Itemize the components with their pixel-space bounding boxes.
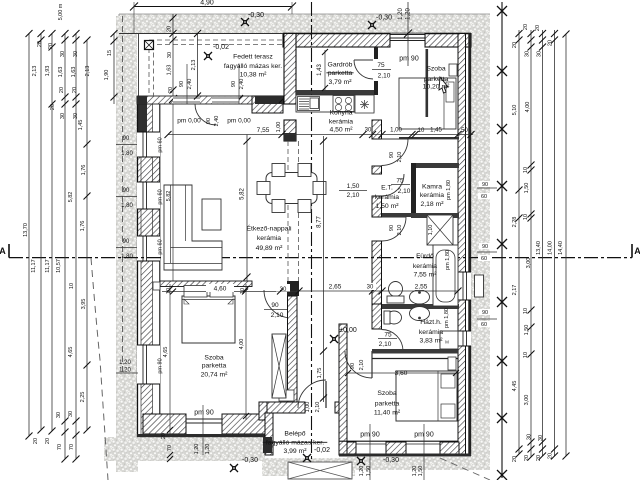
window furdo east [458,272,471,300]
level -0,30 top-right [368,15,392,30]
svg-text:Étkező-nappali: Étkező-nappali [247,224,292,233]
svg-text:1,20: 1,20 [205,444,211,455]
svg-text:10,38 m²: 10,38 m² [240,72,268,79]
svg-text:3,00: 3,00 [524,395,530,406]
svg-text:2,40: 2,40 [187,79,193,90]
svg-text:30: 30 [527,434,533,440]
svg-text:60: 60 [481,256,487,262]
svg-text:10: 10 [418,128,425,134]
level -0,30 top-left [241,12,264,26]
dim chain y134.5 (7,55 / 30 / 1,00 / 10 / 1,45 / 50) [165,122,475,138]
svg-text:kerámia: kerámia [329,119,353,126]
svg-text:90: 90 [271,302,279,309]
svg-text:90: 90 [179,81,185,87]
svg-text:pm 1,80: pm 1,80 [446,180,452,200]
svg-text:49,89 m²: 49,89 m² [256,245,284,252]
corridor door arc [382,139,409,166]
label konyha [329,110,353,134]
svg-text:1,93: 1,93 [45,66,51,77]
terrace column [145,41,154,50]
wall terrace-kitchen x284 [284,34,296,142]
pm 90 bottom labels [194,405,434,480]
svg-text:11,17: 11,17 [31,259,37,272]
svg-text:90: 90 [389,152,395,158]
level -0,30 bottom-right [357,457,399,465]
svg-text:1,50: 1,50 [524,325,530,336]
svg-text:kerámia: kerámia [413,263,437,270]
svg-text:A: A [634,246,640,256]
svg-text:1,00: 1,00 [305,402,311,413]
gardrob dims 1,43 / 75 / 2,10 [317,49,391,91]
svg-text:90: 90 [123,188,130,194]
bathtub [433,245,458,306]
south wall bedroom2 [339,441,471,456]
east window dims 90/60 [477,181,497,328]
vertical axis dash-dot line x311.5 [311,2,313,473]
svg-text:Gardrób: Gardrób [328,62,353,69]
label fedett terasz [224,54,282,79]
svg-text:1,50: 1,50 [347,183,360,190]
washbasin furdo [410,290,430,304]
east exterior wall [458,34,471,457]
north exterior wall [283,34,471,48]
svg-text:3,79 m²: 3,79 m² [328,79,352,86]
svg-text:pm 1,80: pm 1,80 [444,308,450,328]
svg-text:Szoba: Szoba [377,390,396,397]
svg-text:20: 20 [45,438,51,444]
svg-text:8,77: 8,77 [317,216,323,228]
svg-text:90: 90 [389,225,395,231]
svg-text:60: 60 [481,322,487,328]
svg-text:20: 20 [59,87,65,93]
level -0,02 belepo [303,447,330,462]
window west 3 [137,236,160,261]
svg-text:14,40: 14,40 [558,241,564,255]
svg-text:1,63: 1,63 [167,65,173,76]
hazth south wall y346 [372,349,458,359]
property dashed line bottom-left [91,258,108,480]
svg-text:2,40: 2,40 [239,79,245,90]
dim line x197.5 (2,13) [191,30,201,100]
svg-text:4,65: 4,65 [163,347,169,358]
svg-text:1,20: 1,20 [406,8,412,20]
svg-text:70: 70 [57,444,63,450]
svg-text:parketta: parketta [328,70,353,77]
left dimension lines cluster [26,30,91,463]
svg-text:2,65: 2,65 [329,284,342,291]
szoba2 bed outline [399,78,456,129]
fence line with X marks [497,2,507,480]
chair 4 [313,182,326,195]
bedroom1 wall chain 10/4,60/10/30 [162,284,297,295]
svg-text:4,45: 4,45 [512,381,518,392]
svg-text:-0,30: -0,30 [376,15,392,22]
svg-text:Fedett terasz: Fedett terasz [233,54,273,61]
entrance north wall (belepo) [259,402,347,420]
svg-text:parketta: parketta [202,363,227,370]
right dim ticks [516,30,570,461]
west window dims 90/1,80 [116,136,137,260]
svg-text:1,20: 1,20 [119,360,131,366]
svg-text:90: 90 [123,136,130,142]
dim 15/1,90 line [104,30,118,104]
bed1 bedroom1 [182,286,235,344]
svg-text:pm 90: pm 90 [194,410,214,417]
svg-text:4,60: 4,60 [214,286,227,293]
svg-text:kerámia: kerámia [257,235,281,242]
beam dashed lines dining [288,141,299,281]
svg-text:2,10: 2,10 [347,192,360,199]
paving speckle band around building [104,14,490,476]
window south bedroom1 [186,419,222,423]
svg-text:10: 10 [523,167,529,173]
living/bedroom1 partition y281 [160,281,299,296]
svg-text:4,00: 4,00 [525,102,531,113]
ticks on terrace wall band [169,95,287,103]
window west 1 [137,132,160,157]
svg-text:7,55 m²: 7,55 m² [413,272,437,279]
svg-text:11,40 m²: 11,40 m² [374,410,401,417]
dim line x173b 5,82 [166,104,173,281]
south wall bedroom1 [137,414,267,437]
svg-text:1,00: 1,00 [276,122,282,133]
window west 2 [137,182,160,209]
hall cabinet [279,390,294,401]
mouse cursor [439,77,448,93]
svg-text:30: 30 [525,51,531,57]
svg-text:2,10: 2,10 [378,73,391,80]
chair 3 [257,182,270,195]
svg-text:90: 90 [482,310,488,316]
label hazth [419,319,443,345]
toilet hazth [384,311,402,324]
svg-text:Fürdő: Fürdő [416,253,434,260]
svg-text:20: 20 [167,26,173,32]
svg-text:3,83 m²: 3,83 m² [419,338,443,345]
svg-text:1,20: 1,20 [359,466,365,477]
ET door dims 90/2,10 + 1,50/2,10 [339,152,411,199]
svg-text:20: 20 [512,42,518,48]
svg-text:7,55: 7,55 [257,127,270,134]
svg-text:2,10: 2,10 [271,312,284,319]
washing machine [440,331,458,349]
furdo door dims 90/2,10 [389,225,403,236]
svg-text:2,25: 2,25 [80,392,86,403]
dining table [266,173,317,204]
svg-text:1,20: 1,20 [194,444,200,455]
svg-text:4,00: 4,00 [239,339,245,350]
svg-text:1,45: 1,45 [78,120,84,131]
gardrob east wall x374 door [374,47,378,95]
svg-text:4,65: 4,65 [68,347,74,358]
washbasin hazth [410,307,430,321]
label szoba3 [374,390,401,417]
living/ET wall x372 with doors [372,120,382,329]
svg-text:1,50: 1,50 [524,183,530,194]
left dim labels [23,3,91,450]
belepo east wall / bedroom2 west wall [339,324,347,455]
svg-text:5,10: 5,10 [512,105,518,116]
svg-text:50: 50 [461,128,468,134]
bedroom1 dims 4,65 4,00 [163,284,249,437]
label szoba1 [201,355,229,379]
szoba2 south partition y136 [399,137,459,139]
svg-text:20,74 m²: 20,74 m² [201,372,229,379]
property dashed line bottom-right [440,458,490,480]
svg-text:70: 70 [167,445,173,451]
kamra south wall y202 [411,213,459,218]
svg-text:2,13: 2,13 [32,66,38,77]
svg-text:70: 70 [69,444,75,450]
svg-text:90: 90 [482,244,488,250]
kitchen stove [333,96,354,112]
svg-text:60: 60 [481,194,487,200]
window hazth east [458,331,471,346]
svg-text:13,40: 13,40 [536,241,542,255]
svg-text:2,18 m²: 2,18 m² [420,201,444,208]
svg-text:2,40: 2,40 [214,116,220,127]
svg-text:30: 30 [367,285,374,291]
dim line x247 5,82 [240,135,251,282]
pm60 labels west windows [158,137,164,373]
svg-text:±0,00: ±0,00 [339,327,357,334]
svg-text:-0,30: -0,30 [248,12,264,19]
label ET [375,185,399,211]
label szoba2 [423,66,451,91]
svg-text:2,10: 2,10 [379,341,392,348]
svg-text:5,82: 5,82 [166,191,172,202]
fridge with snowflake [355,95,374,113]
svg-text:5,82: 5,82 [240,188,246,200]
window W1 north (hall) pm90 [390,34,425,48]
svg-text:30: 30 [73,51,79,57]
svg-text:10: 10 [523,308,529,314]
svg-text:75: 75 [396,178,404,185]
chair 5 [272,200,285,213]
furdo window open leaf [475,275,484,297]
svg-text:Belépő: Belépő [284,431,305,438]
svg-text:20: 20 [548,453,554,459]
belepo door arc [298,380,326,408]
svg-text:1,75: 1,75 [317,368,323,379]
svg-text:1,00: 1,00 [390,128,402,134]
svg-text:1,50: 1,50 [366,466,372,477]
belepo west wall [263,413,273,455]
svg-text:20: 20 [168,87,174,93]
svg-text:11,17: 11,17 [45,259,51,272]
top dimension 4,90 [130,0,296,33]
label kamra [420,184,444,209]
bedroom1 door dims 90/2,10 [264,302,287,319]
svg-text:75: 75 [384,332,392,339]
svg-text:30: 30 [56,412,62,418]
dim line x173 (2,13 / terrace) [167,14,177,96]
label belepo [263,431,328,456]
svg-text:10: 10 [523,352,529,358]
svg-text:30: 30 [73,113,79,119]
gardrob south wall / kitchen north counterwall y90..95 [296,90,374,95]
terrace slab edge [119,34,283,97]
svg-text:Kamra: Kamra [422,184,442,191]
svg-text:20: 20 [523,24,529,30]
right dimension lines cluster [519,30,566,457]
svg-text:1,20: 1,20 [398,8,404,20]
svg-text:-0,02: -0,02 [314,447,330,454]
svg-text:90: 90 [482,182,488,188]
svg-text:5,00 m: 5,00 m [58,3,64,20]
svg-text:20: 20 [33,438,39,444]
entry steps [288,462,352,479]
svg-text:30: 30 [68,411,74,417]
svg-text:30: 30 [60,113,66,119]
eaves dashed line left [122,16,124,374]
svg-text:1,10: 1,10 [428,225,434,236]
label gardrob [326,62,353,87]
svg-text:90: 90 [350,363,356,369]
kitchen counter [296,95,374,112]
svg-text:pm 90: pm 90 [399,56,419,63]
svg-text:1,76: 1,76 [81,165,87,176]
bedroom2 door arc [345,351,372,378]
label etkezo-nappali [247,224,292,253]
svg-text:1,63: 1,63 [71,67,77,78]
svg-text:fagyálló mázas ker.: fagyálló mázas ker. [266,440,324,447]
svg-text:90: 90 [231,81,237,87]
svg-text:1,90: 1,90 [104,70,110,81]
svg-text:parketta: parketta [424,76,449,83]
coffee table [202,199,221,230]
svg-text:-0,30: -0,30 [383,457,399,464]
svg-text:2,10: 2,10 [398,188,411,195]
bed2 niche [449,64,457,76]
svg-text:-0,30: -0,30 [242,457,258,464]
svg-text:4,50 m²: 4,50 m² [329,127,353,134]
svg-text:20: 20 [72,87,78,93]
bedroom1 east wall x287 [288,296,298,402]
svg-text:15: 15 [107,50,113,56]
radiator bedroom1 [153,282,160,290]
svg-text:1,76: 1,76 [80,221,86,232]
furdo door arc [382,217,406,241]
svg-text:20: 20 [37,41,43,47]
svg-text:2,10: 2,10 [397,225,403,236]
svg-text:14,00: 14,00 [548,241,554,255]
svg-text:2,55: 2,55 [415,284,428,291]
shower furdo [427,215,453,245]
sofa living room L-shape [164,185,222,270]
svg-text:1,43: 1,43 [317,64,323,76]
svg-text:10,20 m²: 10,20 m² [423,84,451,91]
svg-text:5,82: 5,82 [68,192,74,203]
west exterior wall [138,96,160,437]
svg-text:2,28: 2,28 [512,217,518,228]
svg-text:pm 60: pm 60 [158,239,164,254]
bed2 bedroom2 [396,371,457,421]
chair 2 [298,164,311,177]
pm 90 label hall top [399,56,419,63]
bottom-left small dims 20/70 [161,433,173,462]
furdo/hazth divider y304 [382,304,459,309]
svg-text:pm 90: pm 90 [158,358,164,373]
svg-text:3,95: 3,95 [81,299,87,310]
svg-text:1,50: 1,50 [418,466,424,477]
dim chain y291 (2,65/30/2,55) [296,283,462,295]
pm 0,00 labels [177,116,251,127]
level -0,30 bottom-left [230,457,258,472]
terrace door arc [195,104,216,125]
terrace door dims 90/2,40 pairs [179,64,245,104]
svg-text:pm 1,80: pm 1,80 [445,250,451,270]
svg-text:20: 20 [48,43,54,49]
svg-text:3,60: 3,60 [395,370,408,377]
bottom window dims 1,20/1,50 pairs [194,444,424,477]
svg-text:3,00: 3,00 [526,258,532,269]
svg-text:-0,02: -0,02 [213,44,229,51]
svg-text:kerámia: kerámia [419,329,443,336]
svg-text:30: 30 [60,51,66,57]
belepo door dims 1,00/2,10 [305,402,321,413]
svg-text:1,80: 1,80 [121,151,133,157]
chair 1 [272,164,285,177]
terrace roof overhang dashed [149,40,283,96]
svg-text:90: 90 [206,118,212,124]
svg-text:20: 20 [535,25,541,31]
svg-text:2,10: 2,10 [315,402,321,413]
building footprint [137,33,471,437]
svg-text:2,13: 2,13 [85,66,91,77]
svg-text:30: 30 [167,52,173,58]
bedroom2 dim 3,60 [345,370,459,377]
window west 4 [137,345,160,384]
dim 1,20 1,20 window top [398,2,412,66]
svg-text:2,13: 2,13 [191,60,197,71]
kamra pm 1,80 [446,180,452,200]
svg-text:E.T.: E.T. [381,185,393,192]
level -0,02 terrace [204,44,229,60]
gardrob door leaf+arc [354,60,373,79]
svg-text:parketta: parketta [375,401,400,408]
ET door arc [382,174,404,196]
dim line x323 8,77 [317,136,328,402]
svg-text:Szoba: Szoba [204,355,223,362]
svg-text:1,20: 1,20 [119,368,131,374]
svg-text:20: 20 [524,455,530,461]
terrace south wall (living room north wall) [137,96,283,113]
section line A-A horizontal [0,244,640,258]
kamra north wall y165 [411,163,459,168]
kitchen sink [298,97,320,111]
wardrobe bedroom1 [272,334,286,398]
svg-text:A: A [0,246,6,256]
svg-text:fagyálló mázas ker.: fagyálló mázas ker. [224,63,282,70]
bedroom1 door arc [264,290,292,318]
svg-text:Házt.h.: Házt.h. [420,319,442,326]
svg-text:2,10: 2,10 [359,360,365,371]
label furdo [413,253,437,279]
svg-text:20: 20 [50,104,56,110]
svg-text:30: 30 [365,128,372,134]
svg-text:20: 20 [512,456,518,462]
terrace door openings [173,97,239,104]
svg-text:30: 30 [538,435,544,441]
svg-text:kerámia: kerámia [420,192,444,199]
furdo pm 1,80 tub [428,225,451,328]
level +-0,00 hall [330,327,357,343]
hazth door arc [382,330,404,352]
svg-text:1,80: 1,80 [121,254,133,260]
svg-text:10,57: 10,57 [56,259,62,273]
svg-text:Konyha: Konyha [329,110,352,117]
